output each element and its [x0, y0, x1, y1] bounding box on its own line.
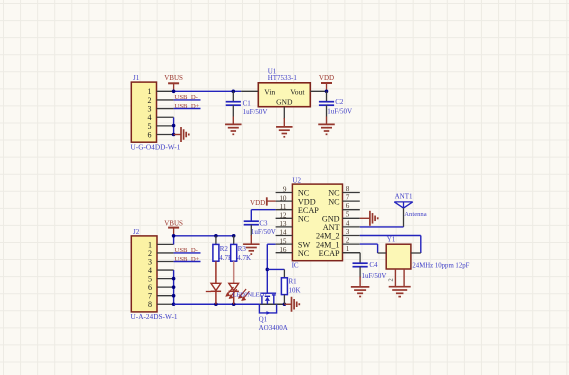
J2 pins 1-8 [148, 240, 174, 309]
ground under C4 [351, 277, 370, 297]
LED D1 (red) [206, 261, 221, 304]
wire ANT pin4 to antenna [360, 226, 404, 228]
ground under C2 [318, 117, 335, 135]
resistor R3 [231, 236, 251, 262]
capacitor C4 [353, 261, 387, 280]
svg-text:4: 4 [346, 219, 350, 227]
svg-text:J2: J2 [133, 228, 140, 236]
wire ECAP to C3 [251, 210, 275, 222]
svg-text:C3: C3 [259, 220, 268, 228]
svg-text:R3: R3 [238, 245, 247, 253]
U1 pin Vin [241, 90, 258, 92]
ground at U2 GND pin5 [360, 211, 378, 226]
svg-text:HT7533-1: HT7533-1 [268, 74, 298, 82]
resistor R1 [281, 269, 300, 304]
ground right of R1 [284, 297, 299, 312]
resistor R2 [213, 236, 233, 262]
ground under U1 [276, 118, 293, 137]
LED D2 (green) [225, 261, 249, 304]
Y1 pin 2 [394, 269, 396, 287]
wire J2 pins 4-8 tie [172, 270, 176, 306]
svg-text:16: 16 [279, 246, 287, 254]
power port VDD (mid) [250, 197, 276, 207]
svg-text:C1: C1 [243, 99, 252, 107]
wire USB_D- (top) [174, 99, 201, 101]
svg-text:AO3400A: AO3400A [259, 324, 288, 332]
J1 pins 1-6 [148, 87, 174, 139]
svg-text:1: 1 [346, 245, 350, 253]
svg-text:Y1: Y1 [387, 235, 396, 243]
wire bottom ground rail [174, 302, 287, 306]
svg-text:6: 6 [346, 202, 350, 210]
wire ECAP pin1 to C4 [343, 253, 361, 264]
svg-text:VBUS: VBUS [164, 74, 183, 82]
wire SW net from U2 pin15 to Q1 gate [266, 244, 285, 292]
svg-text:NC: NC [298, 215, 310, 224]
svg-text:14: 14 [279, 229, 287, 237]
svg-text:9: 9 [283, 186, 287, 194]
svg-text:12: 12 [279, 212, 287, 220]
wire 24M_1 pin2 to Y1 left [360, 244, 386, 253]
svg-text:6: 6 [148, 130, 152, 139]
svg-text:1uF/50V: 1uF/50V [327, 107, 352, 115]
svg-text:24MHz 10ppm 12pF: 24MHz 10ppm 12pF [412, 263, 469, 270]
power port VBUS (top) [164, 74, 183, 91]
ground under C1 [225, 117, 242, 135]
crystal Y1 [386, 235, 469, 286]
wire J1 pins 4-6 tie [172, 117, 176, 136]
svg-text:4.7K: 4.7K [237, 254, 251, 262]
svg-text:GND: GND [276, 97, 293, 106]
svg-text:Vin: Vin [264, 87, 275, 96]
ground under Y1 [389, 287, 411, 297]
regulator U1 HT7533-1 [241, 67, 327, 119]
connector J1 [131, 74, 181, 151]
svg-text:IC: IC [292, 262, 299, 270]
svg-text:10K: 10K [289, 286, 301, 294]
IC U2 [292, 176, 343, 269]
svg-text:11: 11 [280, 203, 287, 211]
svg-text:2: 2 [387, 278, 394, 281]
power port VDD (top) [319, 74, 334, 93]
svg-text:8: 8 [346, 185, 350, 193]
connector J2 [131, 228, 178, 321]
svg-text:U-G-O4DD-W-1: U-G-O4DD-W-1 [131, 143, 181, 152]
U1 pin GND [283, 107, 285, 119]
wire USB_D+ (top) [174, 108, 201, 110]
svg-text:1uF/50V: 1uF/50V [251, 228, 276, 236]
U2 pins 8-1 (right) [316, 185, 360, 258]
svg-text:VDD: VDD [319, 74, 334, 82]
svg-text:C2: C2 [335, 98, 344, 106]
svg-text:VDD: VDD [250, 199, 265, 207]
ground under C3 [243, 235, 259, 254]
capacitor C3 [244, 220, 276, 236]
antenna ANT1 [394, 193, 426, 227]
svg-text:R1: R1 [289, 278, 298, 286]
svg-text:15: 15 [279, 237, 287, 245]
svg-text:1uF/50V: 1uF/50V [362, 272, 387, 280]
svg-text:7: 7 [346, 194, 350, 202]
wire 24M_2 pin3 to Y1 right [360, 236, 421, 254]
transistor Q1 AO3400A [259, 293, 288, 332]
capacitor C2 [319, 91, 352, 116]
wire VBUS rail: J1 pin1 to C1 and U1 Vin [172, 90, 241, 94]
wire USB_D- (bottom) [174, 252, 201, 254]
svg-text:10: 10 [279, 194, 287, 202]
svg-text:U-A-24DS-W-1: U-A-24DS-W-1 [131, 312, 178, 321]
svg-text:1uF/50V: 1uF/50V [243, 108, 268, 116]
svg-text:Vout: Vout [290, 87, 305, 96]
svg-text:NC: NC [298, 249, 310, 258]
svg-text:ANT1: ANT1 [395, 193, 413, 201]
svg-text:J1: J1 [133, 74, 140, 82]
svg-text:VBUS: VBUS [164, 219, 183, 227]
wire USB_D+ (bottom) [174, 261, 201, 263]
wire VBUS rail to R2 R3 [172, 234, 236, 244]
svg-text:NC: NC [328, 197, 340, 206]
svg-text:Q1: Q1 [259, 316, 268, 324]
svg-text:ECAP: ECAP [319, 249, 340, 258]
svg-text:5: 5 [346, 211, 350, 219]
svg-text:8: 8 [148, 300, 152, 309]
svg-text:C4: C4 [369, 261, 378, 269]
Y1 pin 1 [403, 269, 405, 287]
U1 pin Vout [310, 90, 327, 92]
ground at J1 [174, 127, 189, 142]
svg-text:2: 2 [346, 237, 350, 245]
power port VBUS (bottom) [164, 219, 183, 236]
svg-text:U2: U2 [292, 176, 301, 184]
svg-text:13: 13 [279, 220, 287, 228]
svg-text:R2: R2 [220, 245, 229, 253]
U2 pins 9-16 (left) [276, 186, 320, 258]
svg-text:Antenna: Antenna [404, 211, 426, 218]
svg-text:3: 3 [346, 228, 350, 236]
capacitor C1 [226, 91, 268, 116]
